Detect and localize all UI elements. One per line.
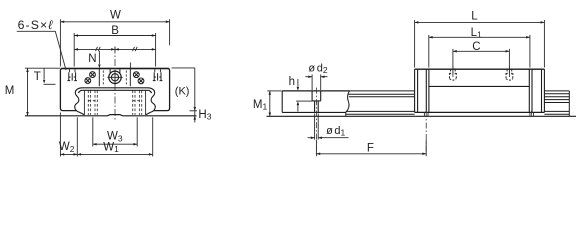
dimension H3	[190, 110, 198, 112]
dimension W2	[60, 113, 77, 157]
dimension M	[25, 68, 60, 116]
svg-text:6-S×ℓ: 6-S×ℓ	[18, 18, 54, 32]
rail mounting hole hidden lines (left, center x=92.8)	[88, 91, 97, 115]
baseline right view	[267, 115, 577, 117]
dimension phi-d2	[305, 74, 327, 90]
rail longitudinal section (left part)	[281, 91, 283, 113]
rail mounting hole hidden lines (right, center x=137.2)	[133, 91, 142, 115]
svg-text:C: C	[472, 41, 480, 53]
threaded hole circles with X (right pair)	[133, 72, 144, 84]
tapped hole section feature left (U shape)	[67, 69, 77, 80]
block mounting hole 2 (hidden)	[506, 66, 513, 80]
svg-text:N: N	[88, 53, 96, 65]
dimension B	[74, 33, 155, 67]
svg-text:W2: W2	[59, 141, 75, 154]
svg-text:L1: L1	[471, 27, 482, 39]
dimension C	[453, 49, 510, 74]
break line between section and side view	[346, 91, 350, 116]
svg-text:L: L	[471, 10, 478, 22]
dimension W3	[93, 117, 137, 146]
block side view	[415, 69, 545, 112]
dimension h	[296, 79, 312, 112]
svg-text:(K): (K)	[175, 86, 190, 98]
dimension F	[316, 140, 426, 156]
dimension N	[98, 51, 100, 64]
ditto mark left	[96, 47, 101, 51]
block outline	[60, 69, 169, 111]
section hole wall lines near top	[99, 69, 130, 87]
svg-text:M1: M1	[253, 99, 268, 112]
svg-text:h: h	[289, 76, 295, 88]
svg-text:W1: W1	[103, 142, 119, 155]
dimension T	[43, 68, 45, 79]
dimension B/2 equal marks line	[74, 47, 155, 53]
vertical centerline	[114, 47, 116, 122]
svg-text:B: B	[111, 25, 119, 37]
grease nipple circles	[109, 71, 121, 83]
dimension W1	[77, 117, 152, 156]
grease nipple crosshair	[107, 70, 122, 85]
counterbore d2	[312, 91, 321, 101]
rail side view lines (right of block)	[544, 91, 569, 116]
rail top line section	[282, 90, 349, 92]
dimension L	[415, 20, 545, 68]
rail groove tangent lines	[84, 91, 145, 115]
threaded hole circles with X (left pair)	[85, 72, 96, 84]
rail bottom line	[282, 111, 346, 113]
through hole d1	[315, 101, 319, 113]
dimension M1	[267, 91, 281, 116]
tick above top edge right (N mirror)	[129, 62, 131, 68]
rail hole 2 under block	[425, 111, 427, 154]
tapped hole section feature right (U shape)	[153, 69, 163, 80]
block inner lip squiggle left	[75, 88, 85, 115]
svg-text:H3: H3	[198, 109, 211, 122]
ditto mark right	[133, 47, 138, 51]
dimension phi-d1	[308, 114, 349, 140]
svg-text:ød1: ød1	[326, 125, 345, 138]
svg-text:M: M	[5, 85, 15, 97]
svg-text:ød2: ød2	[308, 63, 327, 76]
dimension W	[60, 19, 169, 66]
rail hole 3	[531, 111, 533, 119]
dimension L1	[429, 35, 530, 68]
block top edge (thick)	[61, 68, 169, 70]
grease nipple boss	[110, 69, 120, 73]
dimension (K)	[172, 68, 195, 123]
block mounting hole 1 (hidden)	[450, 66, 457, 80]
baseline (mounting surface) with center bump	[25, 115, 197, 116]
svg-text:F: F	[367, 143, 374, 155]
svg-text:W: W	[110, 10, 121, 22]
svg-text:T: T	[34, 71, 41, 83]
rail cross-section top edge	[78, 90, 152, 93]
rail side view lines (left of block)	[346, 91, 415, 114]
hole centerline	[315, 88, 317, 154]
block inner lip squiggle right	[146, 88, 156, 115]
cavity top line	[82, 87, 149, 89]
